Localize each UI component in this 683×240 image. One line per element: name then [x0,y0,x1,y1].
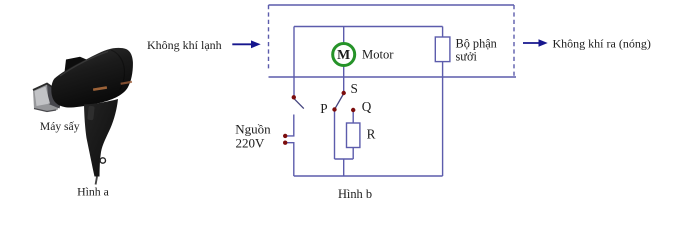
svg-text:M: M [337,47,350,62]
svg-text:Không khí lạnh: Không khí lạnh [147,38,222,52]
svg-text:Motor: Motor [362,48,394,62]
svg-text:Không khí ra (nóng): Không khí ra (nóng) [553,37,651,51]
svg-text:Hình a: Hình a [77,185,110,199]
svg-text:R: R [367,126,376,141]
svg-text:S: S [351,81,358,96]
svg-text:220V: 220V [236,136,266,151]
svg-text:Q: Q [362,99,372,114]
svg-text:sưởi: sưởi [456,49,478,63]
svg-text:Nguồn: Nguồn [235,122,271,137]
svg-text:Hình b: Hình b [338,187,372,201]
svg-text:Máy sấy: Máy sấy [40,120,80,133]
svg-text:P: P [320,101,327,116]
